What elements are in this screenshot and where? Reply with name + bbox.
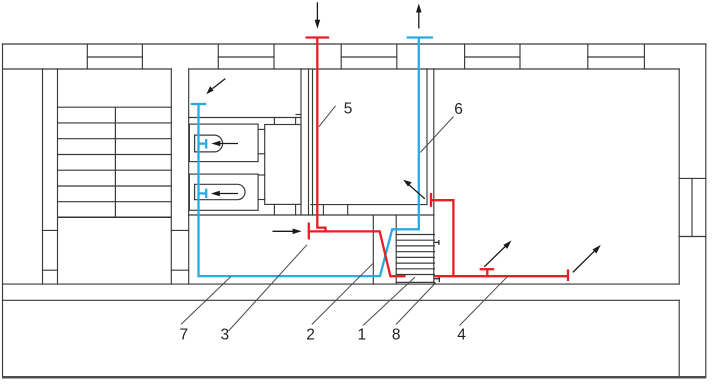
arrow up-left room6 bbox=[409, 184, 425, 198]
svg-text:2: 2 bbox=[306, 327, 315, 344]
pipe branch up to T bbox=[431, 200, 453, 276]
wire stair right wall bbox=[170, 69, 172, 284]
node door ticks right strip bbox=[171, 229, 188, 231]
wire double wall right a bbox=[426, 69, 428, 205]
wire lower box divider bbox=[678, 300, 680, 377]
pipe cold water riser 6 (cyan) bbox=[191, 38, 433, 277]
svg-text:5: 5 bbox=[344, 101, 353, 118]
svg-text:6: 6 bbox=[454, 101, 463, 118]
window W4 bbox=[465, 44, 520, 69]
leader 7 bbox=[181, 277, 231, 325]
svg-text:4: 4 bbox=[457, 327, 466, 344]
node red branch end bar bbox=[430, 193, 432, 207]
node red top T-bar bbox=[306, 36, 330, 38]
union tick upper (8) bbox=[434, 240, 439, 245]
pipe riser down with jog bbox=[317, 38, 325, 232]
node red T-end bar bbox=[308, 223, 310, 240]
leader 4 bbox=[460, 276, 508, 325]
window W1 bbox=[87, 44, 142, 69]
wire inner top wall left bbox=[3, 68, 172, 70]
arrow into tub1 bbox=[218, 143, 238, 145]
leader 1 bbox=[363, 277, 415, 326]
leader 2 bbox=[312, 263, 373, 324]
leader 8 bbox=[396, 283, 436, 325]
window W3 bbox=[341, 44, 397, 69]
svg-text:1: 1 bbox=[357, 327, 366, 344]
wire bottom wall line 2 bbox=[3, 299, 680, 301]
wire shaft right wall bbox=[300, 69, 302, 215]
window right wall bbox=[679, 178, 706, 236]
wire outer left wall bbox=[2, 44, 4, 378]
pipe branch to tub2 bbox=[199, 192, 207, 194]
wire inner top wall right bbox=[189, 68, 680, 70]
room bath2 bbox=[189, 174, 258, 210]
wire shaft wall left bbox=[372, 215, 374, 284]
arrow down into riser 5 bbox=[316, 2, 318, 22]
node cyan top T-bar bbox=[407, 36, 433, 38]
node cyan bathroom T-bar bbox=[191, 103, 207, 105]
node red right end bar bbox=[567, 269, 569, 281]
wire outer right wall bbox=[705, 44, 707, 378]
wire double wall right b bbox=[433, 69, 435, 284]
arrow to red T-end bbox=[273, 230, 296, 232]
pipe branch to tub1 bbox=[199, 142, 207, 144]
window W2 bbox=[218, 44, 274, 69]
arrow up from riser 6 bbox=[418, 11, 420, 29]
node shaft bottom stubs bbox=[273, 204, 275, 215]
svg-text:7: 7 bbox=[179, 327, 188, 344]
bathtub fixture 1 bbox=[195, 135, 223, 152]
node band jambs bbox=[322, 205, 324, 215]
wire rooms56 bottom bbox=[311, 204, 427, 206]
leader lines bbox=[181, 106, 508, 331]
middle walls bbox=[189, 69, 434, 284]
wire stair left wall bbox=[57, 69, 59, 284]
arrows bbox=[206, 2, 601, 272]
shaft box bbox=[265, 125, 301, 205]
bottom thick line bbox=[2, 376, 706, 379]
pipe main horizontal with diagonal bbox=[309, 231, 406, 276]
wire inner right wall bbox=[678, 69, 680, 284]
staircase landing top bbox=[58, 216, 172, 218]
window W5 bbox=[588, 44, 645, 69]
valve on pipe 4 bbox=[486, 270, 488, 277]
node shaft top stubs bbox=[273, 118, 275, 125]
arrow into tub2 bbox=[218, 193, 239, 195]
arrow up-right at pipe end bbox=[573, 251, 595, 272]
node door ticks left strip bbox=[43, 229, 58, 231]
node room-shaft stubs bbox=[258, 128, 265, 130]
heater hatch lines (boiler 1) bbox=[396, 235, 434, 283]
arrow to bathroom T bbox=[213, 79, 226, 89]
wire left column wall bbox=[42, 69, 44, 284]
leader 6 bbox=[420, 117, 453, 153]
wire outer top wall bbox=[3, 43, 706, 45]
staircase steps bbox=[58, 107, 172, 202]
union tick lower (8) bbox=[434, 277, 439, 282]
room bath1 bbox=[189, 124, 258, 162]
leader 3 bbox=[229, 245, 307, 331]
node wall tick bbox=[296, 114, 301, 116]
pipe right section bbox=[434, 275, 568, 277]
svg-text:3: 3 bbox=[220, 327, 229, 344]
leader 5 bbox=[319, 106, 336, 127]
wire bottom wall line 1 bbox=[3, 283, 680, 285]
wire band line bbox=[189, 214, 434, 216]
wire double wall left b bbox=[312, 69, 314, 215]
pipe heating riser 5 (red) bbox=[306, 38, 569, 282]
wire corridor bottom wall bbox=[189, 117, 301, 119]
svg-text:8: 8 bbox=[392, 327, 401, 344]
arrow up-right near valve bbox=[484, 247, 505, 267]
wire corridor right wall bbox=[188, 69, 190, 284]
staircase divider bbox=[114, 107, 116, 217]
bathroom block walls bbox=[189, 69, 301, 215]
wire heater wall bbox=[395, 215, 397, 284]
bathtub fixture 2 bbox=[195, 184, 245, 199]
wire double wall left a bbox=[308, 69, 310, 215]
